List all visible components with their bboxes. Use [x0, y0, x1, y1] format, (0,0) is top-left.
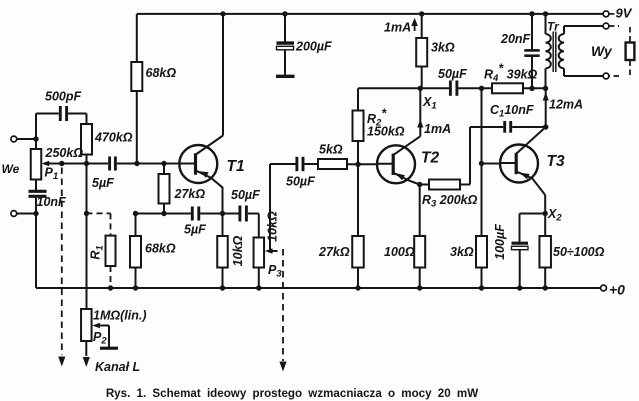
- svg-text:50÷100Ω: 50÷100Ω: [553, 245, 605, 259]
- svg-text:We: We: [2, 162, 20, 176]
- svg-text:Wy: Wy: [591, 43, 613, 59]
- svg-text:250kΩ: 250kΩ: [45, 146, 84, 160]
- svg-text:5µF: 5µF: [184, 223, 206, 237]
- svg-text:5µF: 5µF: [92, 176, 114, 190]
- svg-text:50µF: 50µF: [438, 67, 467, 81]
- svg-text:1mA: 1mA: [424, 122, 451, 136]
- svg-text:3kΩ: 3kΩ: [450, 245, 474, 259]
- svg-text:Tr: Tr: [547, 20, 560, 34]
- svg-text:Rys. 1. Schemat ideowy prosteg: Rys. 1. Schemat ideowy prostego wzmacnia…: [106, 387, 478, 400]
- svg-text:500pF: 500pF: [45, 90, 81, 104]
- svg-text:10kΩ: 10kΩ: [266, 211, 280, 242]
- svg-text:27kΩ: 27kΩ: [174, 187, 206, 201]
- svg-text:T1: T1: [227, 158, 245, 175]
- svg-text:T2: T2: [421, 150, 439, 167]
- svg-text:68kΩ: 68kΩ: [145, 242, 176, 256]
- svg-text:27kΩ: 27kΩ: [318, 245, 350, 259]
- svg-text:+0: +0: [609, 282, 625, 298]
- svg-text:5kΩ: 5kΩ: [319, 143, 343, 157]
- svg-text:3kΩ: 3kΩ: [431, 41, 455, 55]
- svg-text:100µF: 100µF: [493, 224, 507, 260]
- svg-text:20nF: 20nF: [500, 32, 531, 46]
- svg-text:150kΩ: 150kΩ: [367, 125, 405, 139]
- svg-text:10nF: 10nF: [37, 195, 67, 209]
- svg-text:Kanał L: Kanał L: [95, 360, 140, 374]
- svg-text:470kΩ: 470kΩ: [94, 131, 133, 145]
- svg-text:50µF: 50µF: [286, 175, 315, 189]
- svg-text:1mA: 1mA: [384, 21, 411, 35]
- svg-text:100Ω: 100Ω: [384, 245, 415, 259]
- svg-text:68kΩ: 68kΩ: [146, 66, 177, 80]
- svg-text:10kΩ: 10kΩ: [231, 235, 245, 266]
- svg-text:50µF: 50µF: [231, 188, 260, 202]
- svg-text:1MΩ(lin.): 1MΩ(lin.): [93, 309, 147, 323]
- svg-text:200µF: 200µF: [295, 40, 332, 54]
- svg-text:12mA: 12mA: [549, 98, 583, 112]
- svg-text:9V: 9V: [616, 6, 633, 21]
- svg-text:T3: T3: [547, 153, 565, 170]
